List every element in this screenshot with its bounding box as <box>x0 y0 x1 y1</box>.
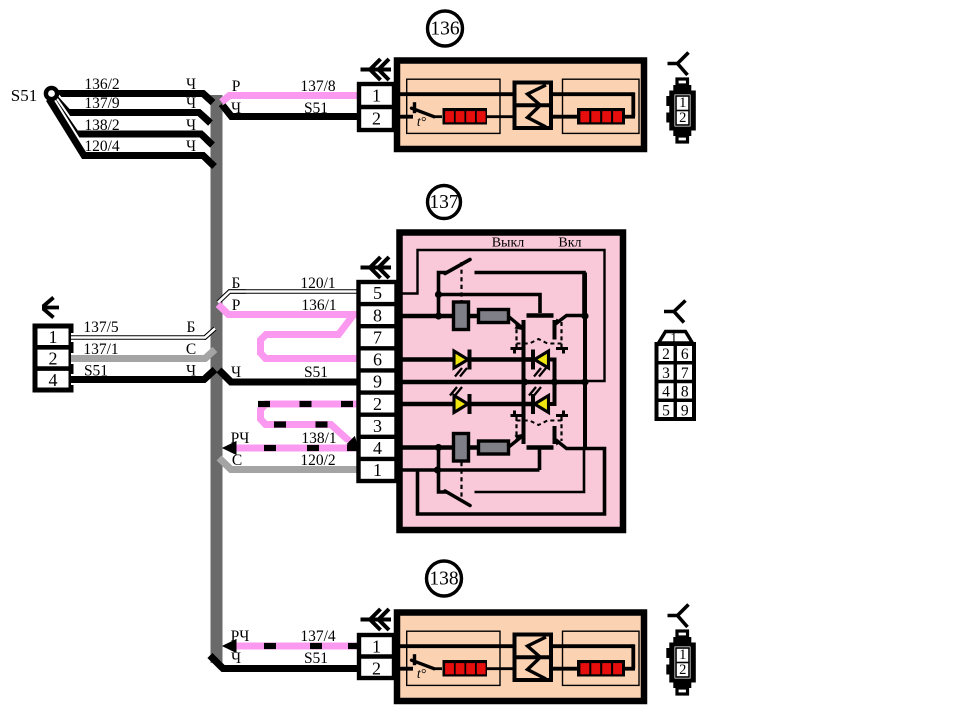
svg-text:4: 4 <box>662 384 670 401</box>
svg-text:Ч: Ч <box>231 364 241 381</box>
svg-text:7: 7 <box>373 327 382 347</box>
svg-text:Ч: Ч <box>186 76 196 93</box>
svg-text:6: 6 <box>373 350 382 370</box>
lower switch lever <box>439 448 448 493</box>
svg-text:137/1: 137/1 <box>83 341 118 358</box>
pin 4 line <box>399 445 509 450</box>
wire pin1 to connector 136 <box>396 92 515 96</box>
svg-text:Ч: Ч <box>186 363 196 380</box>
component number 136 <box>428 11 463 46</box>
svg-text:Вкл: Вкл <box>558 236 581 251</box>
svg-text:8: 8 <box>681 384 689 401</box>
svg-text:137/8: 137/8 <box>300 78 336 95</box>
РЧ bus arrows redraw <box>222 441 237 455</box>
arrow into pin 4 (over wire) <box>347 436 359 449</box>
pin 2 line <box>399 402 455 407</box>
svg-text:136/2: 136/2 <box>84 76 119 93</box>
wire element to corner 138 <box>625 667 635 671</box>
wire pin2 to thermal switch 136 <box>396 115 413 119</box>
pin 1 line <box>399 468 540 472</box>
svg-text:S51: S51 <box>304 364 328 381</box>
upper switch dashed link <box>460 262 462 303</box>
wire РЧ loop pin 2 to pin 4 (pink/black) <box>261 404 359 445</box>
branch to upper transistor pair <box>439 295 541 314</box>
wire Ч S51 to 137 pin 9 <box>219 370 358 382</box>
harness continuation arrow at 137 <box>361 266 392 270</box>
svg-text:7: 7 <box>681 365 689 382</box>
white casing nick at bus top right <box>223 95 234 106</box>
heating element (resistor) left 138 <box>443 660 488 677</box>
svg-text:138: 138 <box>429 569 458 590</box>
svg-text:Б: Б <box>187 319 196 336</box>
svg-text:137: 137 <box>429 192 459 213</box>
svg-text:Ч: Ч <box>186 95 196 112</box>
wire connector to right element 138 <box>551 644 633 648</box>
inline connector (chevrons) 136 <box>515 83 552 129</box>
lower fixed contact line <box>475 450 585 492</box>
svg-text:t°: t° <box>417 666 427 681</box>
svg-text:t°: t° <box>417 114 427 129</box>
svg-text:Ч: Ч <box>186 138 196 155</box>
connector branch symbol at 137 <box>664 301 686 323</box>
LED HL2 <box>531 350 535 370</box>
harness continuation arrow at 138 <box>361 618 392 622</box>
wire 137/1 С (grey) <box>71 350 215 359</box>
svg-text:138/1: 138/1 <box>301 430 336 447</box>
svg-text:8: 8 <box>373 305 382 325</box>
harness trunk (grey bus) <box>211 95 223 663</box>
wire РЧ 138/1 bus to 137 pin 4 <box>222 441 237 455</box>
wire Р 137/8 pink to 136 pin 1 <box>222 96 360 103</box>
svg-text:S51: S51 <box>304 650 328 667</box>
wire 137/5 Б (white) <box>71 329 215 338</box>
svg-text:120/1: 120/1 <box>300 275 335 292</box>
wire Ч S51 bus to 138 pin 2 <box>210 656 359 669</box>
wire S51 Ч (black) <box>71 370 215 380</box>
svg-text:9: 9 <box>681 402 689 419</box>
svg-text:1: 1 <box>372 637 381 657</box>
wire pin1 to connector 138 <box>396 644 515 648</box>
pin 9 line <box>399 380 585 385</box>
plug pin cells 1,2 X136 <box>676 96 689 125</box>
2-pin plug housing X136 <box>677 79 688 85</box>
internal wire from pin 5 (thin loop) <box>399 250 605 381</box>
resistor R upper vertical <box>454 302 469 330</box>
harness continuation arrow at 136 <box>361 68 392 72</box>
right vertical rail (switched) <box>583 273 587 449</box>
harness trunk redraw <box>211 95 223 663</box>
internal wire bottom loop to pin 1 <box>418 449 605 515</box>
wire РЧ 137/4 bus to 138 pin 1 <box>222 639 237 653</box>
left connector pin box 1,2,4 <box>35 326 71 390</box>
resistor R lower horizontal <box>479 441 509 454</box>
wire 120/4 black <box>49 99 215 167</box>
svg-text:3: 3 <box>662 365 670 382</box>
136 pin box 1,2 <box>359 84 394 130</box>
svg-text:9: 9 <box>373 372 382 392</box>
svg-text:1: 1 <box>679 647 686 663</box>
9-pin connector block <box>659 332 693 344</box>
upper transistor pair <box>508 316 523 329</box>
svg-text:2: 2 <box>679 662 686 678</box>
upper pair dashed electrodes <box>515 322 517 347</box>
LED HL4 <box>531 394 535 414</box>
svg-text:2: 2 <box>679 110 686 126</box>
138 inner frame right <box>563 631 640 685</box>
wire Ч S51 to 136 pin 2 <box>222 104 360 117</box>
wire 137/9 black <box>53 96 211 123</box>
heating element (resistor) right 138 <box>577 660 625 677</box>
plug pin cells 1,2 X138 <box>676 648 689 677</box>
heating element (resistor) right 136 <box>577 108 625 125</box>
2-pin plug housing X138 <box>677 631 688 637</box>
lower switch dashed link <box>460 462 462 502</box>
svg-text:2: 2 <box>662 346 670 363</box>
wire element to corner 136 <box>625 115 635 119</box>
resistor R upper horizontal <box>479 310 509 323</box>
LED HL3 <box>454 396 468 413</box>
svg-text:1: 1 <box>679 95 686 111</box>
svg-text:1: 1 <box>49 327 58 347</box>
svg-text:136/1: 136/1 <box>301 297 336 314</box>
wire pin2 to thermal switch 138 <box>396 667 413 671</box>
svg-text:1: 1 <box>372 86 381 106</box>
wire resistor to connector 138 <box>487 667 515 670</box>
upper fixed contact line (Вкл) <box>475 273 585 315</box>
svg-text:137/4: 137/4 <box>300 628 336 645</box>
wire resistor to connector 136 <box>487 115 515 118</box>
heated nozzle unit 138 body <box>397 613 644 702</box>
svg-text:5: 5 <box>373 283 382 303</box>
svg-text:Ч: Ч <box>186 117 196 134</box>
inline connector (chevrons) 138 <box>515 635 552 681</box>
svg-text:4: 4 <box>373 438 382 458</box>
wire 138/2 black <box>51 98 213 145</box>
svg-text:136: 136 <box>430 19 460 40</box>
node S51 <box>46 88 57 99</box>
svg-text:S51: S51 <box>11 86 37 105</box>
svg-text:5: 5 <box>662 402 670 419</box>
lower pair dashed electrodes <box>515 417 517 441</box>
137 switch unit body <box>400 233 624 531</box>
branch from pin 1 line to lower pair <box>538 450 542 471</box>
138 inner frame left <box>407 631 500 685</box>
heated nozzle unit 136 body <box>397 61 644 150</box>
component number 138 <box>427 561 462 596</box>
svg-text:138/2: 138/2 <box>84 117 119 134</box>
svg-text:2: 2 <box>49 349 58 369</box>
svg-text:2: 2 <box>373 394 382 414</box>
lower transistor pair <box>508 436 523 448</box>
component number 137 <box>428 186 461 219</box>
137 pin stack 5,8,7,6,9,2,3,4,1 <box>359 282 397 481</box>
wire С 120/2 grey to 137 pin 1 <box>219 458 358 470</box>
wire Б 120/1 to 137 pin 5 (white) <box>218 292 358 303</box>
LED row links <box>470 357 524 362</box>
wire Р 136/1 pink to 137 pin 8 and loop to pin 6 <box>261 317 359 359</box>
svg-text:137/9: 137/9 <box>84 95 120 112</box>
136 inner frame right <box>563 79 640 133</box>
heating element (resistor) left 136 <box>443 108 488 125</box>
svg-text:1: 1 <box>373 460 382 480</box>
136 inner frame left <box>407 79 500 133</box>
svg-text:С: С <box>186 341 196 358</box>
138 pin box 1,2 <box>359 635 394 678</box>
svg-text:137/5: 137/5 <box>83 319 119 336</box>
svg-text:3: 3 <box>373 416 382 436</box>
thermal switch t° 138 <box>413 654 416 665</box>
wire connector to right element 136 <box>551 92 633 96</box>
upper contact bar <box>527 313 554 318</box>
svg-text:2: 2 <box>372 659 381 679</box>
upper right transistor bar <box>553 320 557 340</box>
resistor R lower vertical <box>454 434 469 462</box>
svg-text:4: 4 <box>49 370 58 390</box>
svg-text:S51: S51 <box>84 363 108 380</box>
LED HL1 <box>454 351 468 368</box>
harness arrow at left connector <box>42 298 59 318</box>
svg-text:120/2: 120/2 <box>300 452 335 469</box>
upper switch lever <box>439 273 448 317</box>
lower left rail stub <box>553 426 557 444</box>
pin 8 line <box>399 314 509 319</box>
lower contact bar <box>527 445 554 450</box>
svg-text:120/4: 120/4 <box>84 138 120 155</box>
pin 6 line <box>399 357 455 362</box>
svg-text:6: 6 <box>681 346 689 363</box>
svg-text:S51: S51 <box>304 100 328 117</box>
arrow into pin 4 <box>347 436 359 449</box>
left vertical rail <box>522 320 526 444</box>
svg-text:2: 2 <box>372 109 381 129</box>
thermal switch t° 136 <box>413 102 416 113</box>
connector branch symbol X136 <box>668 53 689 76</box>
connector branch symbol X138 <box>668 605 689 628</box>
svg-text:Выкл: Выкл <box>492 236 525 251</box>
wire 136/2 black <box>57 94 213 103</box>
